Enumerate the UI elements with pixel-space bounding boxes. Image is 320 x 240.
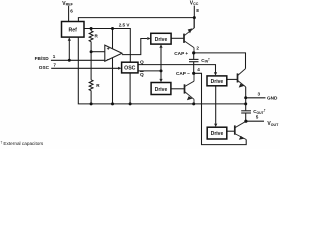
node FB junction [68, 59, 71, 62]
svg-text:OSC: OSC [39, 65, 50, 70]
box OSC [122, 62, 138, 73]
node VCC rail junction [193, 16, 196, 19]
node rail opamp [111, 102, 114, 105]
node rail R2 [90, 102, 93, 105]
wire R2 to rail [90, 91, 92, 104]
arrowhead into Drive3 top [214, 72, 217, 76]
wire R1 to tap [90, 42, 92, 80]
wire Ref ground [78, 37, 245, 104]
wire op-amp noninverting input [91, 51, 105, 53]
arrowhead into Ref [68, 37, 71, 41]
capacitor COUT [241, 111, 251, 113]
svg-text:5: 5 [256, 114, 259, 119]
svg-text:Q: Q [140, 72, 144, 78]
svg-text:1: 1 [53, 54, 56, 59]
wire FB/SD pin1 to inverting input [51, 59, 105, 61]
wire Qbar to Drive1 [160, 48, 162, 71]
node CAP- [192, 72, 195, 75]
svg-text:Q: Q [140, 60, 144, 66]
svg-text:Drive: Drive [155, 87, 168, 93]
svg-text:FB/SD: FB/SD [35, 56, 50, 61]
wire resistor chain top [90, 29, 92, 31]
wire CAP- to Q4 emitter [194, 73, 247, 144]
arrowhead into Drive1 bottom [159, 44, 162, 48]
svg-text:Drive: Drive [155, 37, 168, 43]
box Drive4 [207, 127, 227, 139]
node VOUT [244, 120, 247, 123]
wire FB/SD to Ref arrow line [68, 40, 70, 60]
wire COUT bottom lead [245, 113, 247, 121]
svg-text:3: 3 [258, 91, 261, 96]
wire VCC top rail [78, 18, 194, 22]
wire Qbar to Drive2 [160, 71, 162, 79]
node GND pin [244, 96, 247, 99]
wire VOUT pin5 [246, 120, 264, 122]
arrowhead into OSC [118, 67, 121, 70]
box Drive1 [151, 33, 171, 44]
wire Drive2 to Q2 base [171, 88, 184, 90]
box Drive2 [151, 83, 171, 95]
wire CAP+ to Q3 collector [194, 53, 246, 69]
wire CIN top lead [193, 53, 195, 59]
svg-text:4: 4 [197, 67, 200, 72]
wire Drive4 to Q4 base [227, 130, 235, 132]
node 2.5V opamp supply [111, 27, 114, 30]
capacitor CIN [189, 59, 199, 61]
wire CIN bottom lead [193, 62, 195, 74]
svg-text:VREF: VREF [62, 1, 73, 7]
wire VREF pin6 vertical [68, 6, 70, 22]
arrowhead into Drive2 top [159, 79, 162, 83]
svg-text:Ref: Ref [69, 27, 78, 33]
box Drive3 [207, 76, 227, 86]
box Ref [62, 22, 85, 38]
op-amp U1 [105, 45, 122, 61]
wire OSC ground [129, 73, 131, 105]
svg-text:CAP +: CAP + [174, 51, 188, 56]
wire op-amp supply vertical [112, 29, 114, 104]
transistor Q3 [238, 69, 246, 87]
wire 2.5V rail [84, 29, 130, 63]
svg-text:OSC: OSC [124, 66, 135, 72]
svg-text:Drive: Drive [211, 79, 224, 85]
svg-text:6: 6 [70, 8, 73, 13]
node rail end [244, 102, 247, 105]
svg-text:8: 8 [196, 8, 199, 13]
svg-text:VOUT: VOUT [267, 121, 279, 127]
node rail OSC [129, 102, 132, 105]
node rail Q2 [192, 102, 195, 105]
svg-text:Drive: Drive [211, 131, 224, 137]
svg-text:2.5 V: 2.5 V [119, 23, 131, 28]
wire op-amp output to Drive1 [122, 39, 147, 55]
arrowhead into Drive4 top [214, 124, 217, 128]
wire OSC Qbar output [138, 70, 161, 72]
wire Drive3 to Q3 base [227, 78, 237, 80]
resistor R2 [89, 80, 93, 91]
node 2.5V R1 [90, 27, 93, 30]
svg-text:CAP −: CAP − [176, 71, 190, 76]
node Qbar junction [160, 69, 163, 72]
arrowhead into Drive1 left [147, 37, 150, 40]
transistor Q2 [185, 73, 195, 104]
wire Drive3 chain vertical [215, 86, 217, 124]
wire OSC Q output [138, 65, 215, 73]
svg-text:2: 2 [196, 45, 199, 50]
node CAP+ [192, 51, 195, 54]
resistor R1 [89, 31, 93, 42]
wire OSC pin7 [51, 67, 118, 69]
wire Q3 emitter to GND node [245, 87, 247, 111]
wire VCC pin8 vertical [193, 6, 195, 29]
wire GND pin3 [246, 97, 266, 99]
node divider tap [90, 50, 93, 53]
svg-text:7: 7 [53, 63, 56, 68]
svg-text:VCC: VCC [190, 0, 199, 6]
transistor Q1 [184, 18, 194, 53]
wire Drive1 to Q1 base [171, 37, 184, 39]
transistor Q4 [235, 121, 246, 139]
svg-text:†External capacitors: †External capacitors [1, 141, 44, 146]
svg-text:GND: GND [267, 95, 278, 100]
